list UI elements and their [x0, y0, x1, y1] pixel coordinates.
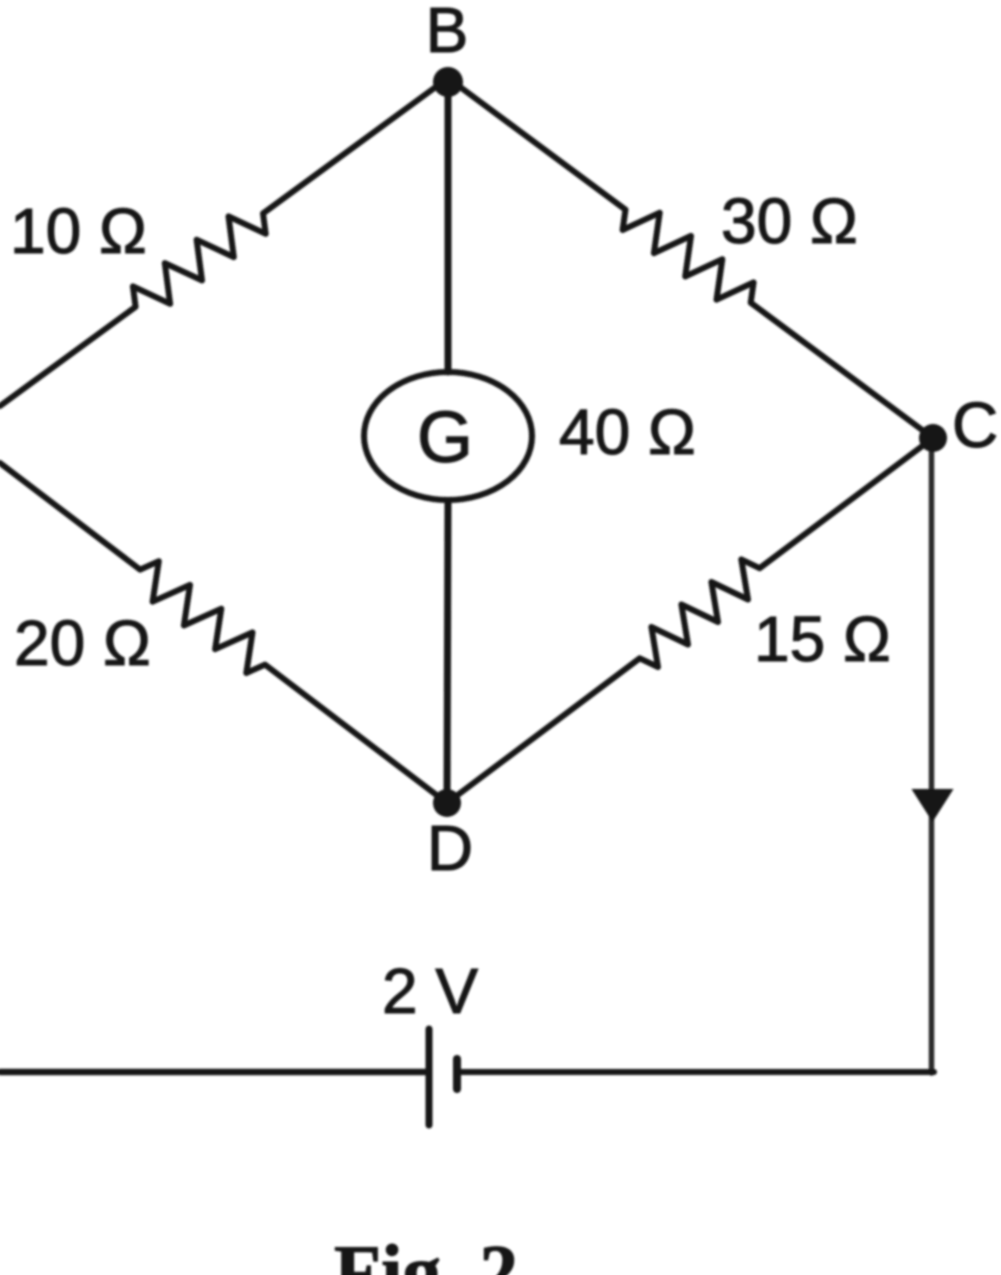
battery right wire — [460, 1069, 934, 1075]
wire galvanometer to D — [447, 501, 448, 803]
svg-text:C: C — [952, 389, 998, 461]
resistor 20 Ohm (arm A-D) — [0, 463, 447, 803]
svg-text:30 Ω: 30 Ω — [721, 185, 858, 257]
node D — [433, 789, 461, 817]
resistor 30 Ohm (arm B-C) — [448, 78, 933, 438]
svg-text:Fig. 2: Fig. 2 — [334, 1229, 518, 1275]
svg-text:2 V: 2 V — [382, 955, 478, 1027]
current arrow on right wire — [912, 789, 954, 822]
resistor 10 Ohm (arm A-B) — [0, 78, 448, 406]
wire C down to battery — [929, 440, 935, 1073]
svg-text:15 Ω: 15 Ω — [754, 603, 891, 675]
node B — [433, 67, 463, 97]
battery short plate — [453, 1059, 461, 1089]
svg-text:20 Ω: 20 Ω — [14, 607, 151, 679]
svg-text:40 Ω: 40 Ω — [559, 396, 696, 468]
resistor 15 Ohm (arm D-C) — [447, 438, 933, 803]
svg-text:D: D — [427, 812, 473, 884]
svg-text:B: B — [426, 0, 469, 66]
battery left wire — [0, 1069, 426, 1076]
node C — [919, 424, 947, 452]
battery long plate — [426, 1029, 433, 1125]
svg-text:10 Ω: 10 Ω — [10, 195, 147, 267]
svg-text:G: G — [417, 398, 473, 478]
galvanometer G ellipse — [364, 372, 532, 500]
wire B to galvanometer — [445, 80, 452, 372]
